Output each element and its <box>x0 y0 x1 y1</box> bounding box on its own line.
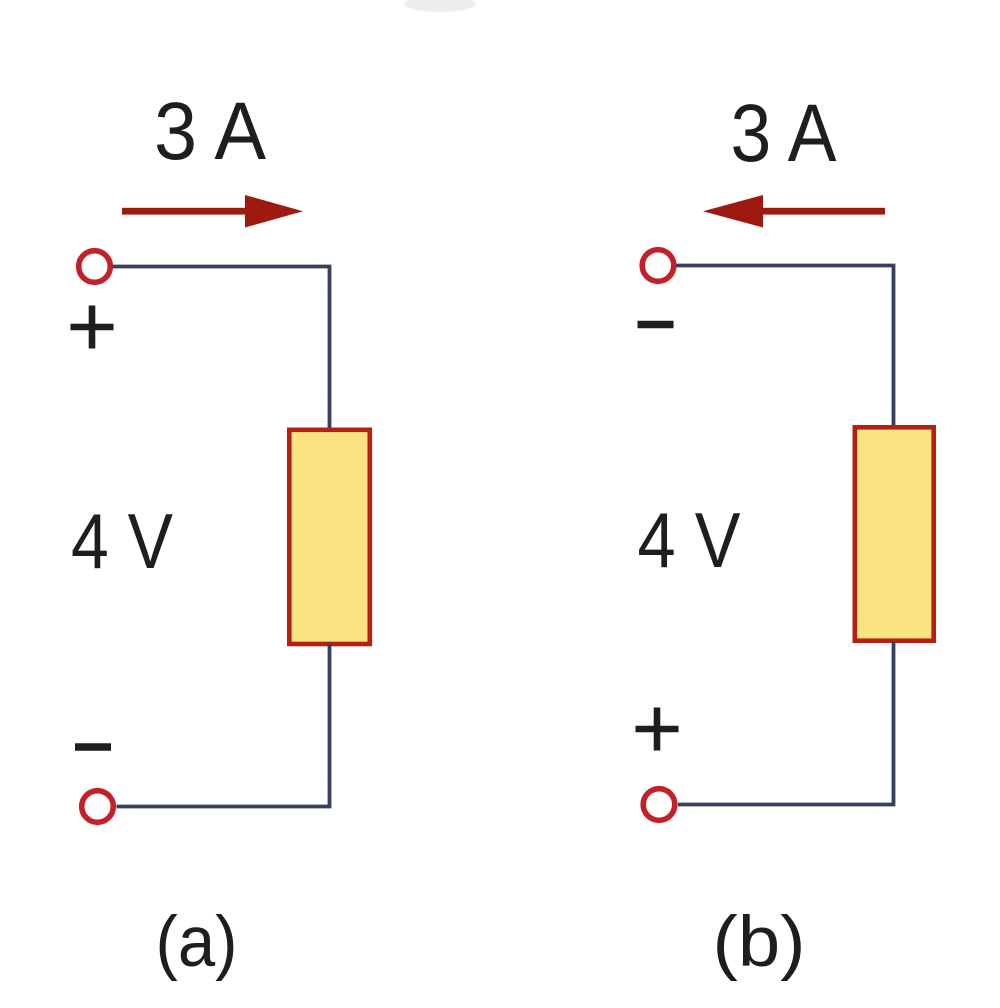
svg-text:3 A: 3 A <box>731 88 837 179</box>
plus polarity sign (circuit a) <box>71 306 114 349</box>
scan smudge top center <box>404 0 476 12</box>
terminal node top-left (circuit a) <box>79 251 111 283</box>
svg-text:4 V: 4 V <box>71 497 173 585</box>
svg-text:(a): (a) <box>156 903 238 982</box>
resistor / element body (circuit b) <box>855 427 934 640</box>
svg-text:(b): (b) <box>713 903 806 982</box>
plus polarity sign (circuit b) <box>636 708 679 751</box>
wire bottom (circuit b): resistor bottom to terminal <box>678 641 894 805</box>
wire bottom (circuit a): resistor bottom to terminal <box>117 644 330 807</box>
minus polarity sign (circuit b) <box>638 321 674 328</box>
current arrow I=3A left (circuit b) <box>703 195 885 228</box>
minus polarity sign (circuit a) <box>75 743 111 750</box>
svg-text:4 V: 4 V <box>638 496 741 584</box>
terminal node top-right circuit (circuit b) <box>642 250 674 282</box>
svg-text:3 A: 3 A <box>154 86 266 177</box>
terminal node bottom-right circuit (circuit b) <box>643 789 675 821</box>
current arrow I=3A right (circuit a) <box>122 195 303 228</box>
wire top (circuit b): terminal to resistor top <box>676 266 894 427</box>
wire top (circuit a): terminal to resistor top <box>113 267 330 429</box>
terminal node bottom-left (circuit a) <box>82 791 114 823</box>
resistor / element body (circuit a) <box>289 430 370 644</box>
